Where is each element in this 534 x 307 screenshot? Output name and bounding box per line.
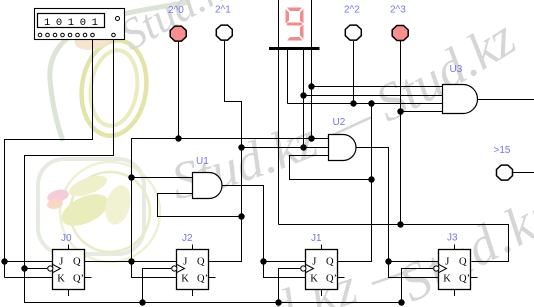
wire U1 output to J1 — [222, 186, 306, 262]
svg-text:>15: >15 — [494, 145, 511, 156]
node U1 out split — [260, 258, 266, 264]
logo stamp1 ring — [76, 36, 153, 140]
gate U3 AND — [443, 85, 478, 114]
wire W1 branch to J0 K input — [5, 277, 53, 279]
wire Q2 from J1.Q — [338, 104, 372, 262]
logo stamp2 rounded square — [38, 159, 144, 254]
word generator pin circles — [38, 33, 115, 37]
svg-text:Q’: Q’ — [197, 273, 208, 284]
svg-text:J: J — [59, 256, 63, 267]
wire Q1 to U2 input2 — [242, 147, 329, 149]
node clock bus J1 — [275, 299, 281, 305]
node lamp 2^2 tap — [350, 100, 356, 106]
wire U3 input4 — [401, 111, 443, 113]
wire Q3 riser to lamp 2^3 — [400, 41, 402, 225]
lamp 2^3 — [392, 26, 408, 41]
lamp 2^0 — [170, 26, 186, 41]
svg-text:K: K — [310, 273, 318, 284]
flip-flop J0 — [48, 245, 92, 297]
node Q0 7seg pin4 junction — [308, 135, 314, 141]
svg-text:2^2: 2^2 — [344, 5, 360, 16]
logo stamp1 corner path — [50, 2, 190, 141]
node U3 input2 tap — [300, 92, 306, 98]
wire Q0 branch to J2.K — [132, 262, 177, 278]
wire U2 output to J3 — [356, 148, 439, 262]
svg-text:Q’: Q’ — [459, 273, 470, 284]
wire Q1 from J2.Q — [209, 41, 242, 262]
wire 7seg pin4 vertical — [311, 0, 313, 139]
svg-text:Q: Q — [73, 256, 81, 267]
node clock bus J2 — [139, 299, 145, 305]
wire Q2 horizontal to U3 input3 — [288, 103, 443, 105]
lamp 2^2 — [345, 25, 361, 40]
wire U3 output — [478, 99, 534, 101]
word generator indicator circle — [116, 17, 120, 21]
svg-text:K: K — [57, 273, 65, 284]
svg-text:K: K — [443, 273, 451, 284]
wire 7seg pin2 vertical — [287, 50, 289, 104]
wire U3 input2 — [304, 95, 443, 97]
wire Q3 from J3.Q — [279, 225, 509, 262]
node U3 input4 tap — [397, 108, 403, 114]
svg-text:Q: Q — [459, 256, 467, 267]
flip-flop J3 — [434, 245, 478, 297]
svg-text:J: J — [312, 256, 316, 267]
node Q0 at riser base — [128, 258, 134, 264]
wire U3 input1 — [312, 86, 443, 88]
word generator display window — [38, 14, 105, 28]
node Q0 to U1 — [128, 174, 134, 180]
svg-text:J1: J1 — [311, 233, 322, 244]
logo stamp2 salmon — [46, 198, 63, 211]
logo stamp2 petal pink — [46, 187, 70, 204]
svg-text:U3: U3 — [450, 64, 463, 75]
wire U1 output branch to J1.K — [264, 262, 306, 278]
logo stamp1 flower orange — [72, 22, 116, 54]
flip-flop J1 — [301, 245, 345, 297]
wire 7seg pin3 vertical — [303, 50, 305, 148]
node Q1 7seg pin3 junction — [300, 144, 306, 150]
svg-text:Q: Q — [326, 256, 334, 267]
svg-text:10101: 10101 — [44, 17, 104, 29]
svg-text:2^1: 2^1 — [215, 5, 231, 16]
wire U2 input3 loop — [290, 156, 372, 180]
svg-text:2^3: 2^3 — [390, 5, 406, 16]
wire Q0 from J0.Q to J2.J — [85, 261, 177, 263]
logo stamp2 bird swirl — [101, 183, 135, 228]
7seg display body sides — [278, 0, 280, 47]
logo stamp2 thin rings — [70, 172, 150, 252]
svg-text:J: J — [183, 256, 187, 267]
node Q0 lamp 2^0 tap — [175, 135, 181, 141]
lamp >15 — [497, 165, 513, 180]
svg-text:U2: U2 — [333, 117, 346, 128]
wire W1 branch to J0 J input — [5, 261, 53, 263]
lamp 2^1 — [216, 25, 232, 40]
svg-text:2^0: 2^0 — [168, 5, 184, 16]
svg-text:J: J — [445, 256, 449, 267]
wire W2 branch to J0 clock bubble — [25, 268, 48, 270]
svg-text:J0: J0 — [61, 233, 72, 244]
svg-text:U1: U1 — [196, 156, 209, 167]
gate U2 AND — [329, 135, 357, 161]
wire Q0 riser — [132, 139, 329, 262]
gate U1 AND — [193, 173, 223, 199]
node clock bus J3 — [398, 299, 404, 305]
svg-text:J2: J2 — [182, 233, 193, 244]
wire W1 device pin8 to J0 J/K — [5, 40, 93, 278]
wire 7seg pin1 vertical — [278, 0, 280, 225]
node U2 out split — [385, 258, 391, 264]
svg-text:Q: Q — [197, 256, 205, 267]
node Q2 to U2 input3 — [368, 176, 374, 182]
node Q1 to U2 — [238, 144, 244, 150]
logo stamp2 bird body — [57, 188, 113, 233]
node W2 clock split — [21, 265, 27, 271]
svg-text:K: K — [181, 273, 189, 284]
7seg display base bar — [269, 47, 320, 50]
wire U1 input2 loop — [158, 194, 242, 217]
wire clock riser J3 — [402, 269, 434, 303]
node Q1 to U1 input2 — [238, 213, 244, 219]
7seg digit 9 — [286, 8, 304, 41]
node Q3 riser tap — [397, 221, 403, 227]
wire >15 lamp lead — [512, 172, 534, 174]
wire clock riser J1 — [279, 269, 301, 303]
word generator device outer box — [35, 9, 125, 40]
svg-text:Q’: Q’ — [73, 273, 84, 284]
wire lamp 2^0 stub — [178, 41, 180, 139]
node W1 J/K split — [1, 258, 7, 264]
flip-flop J2 — [172, 245, 216, 297]
node Q2 riser top — [368, 100, 374, 106]
wire lamp 2^2 stub — [353, 41, 355, 104]
node U3 input1 tap — [308, 83, 314, 89]
wire W2 device pin9 clock feed — [25, 40, 402, 303]
wire U2 output branch to J3.K — [389, 262, 439, 278]
logo stamp2 bird wing — [66, 172, 109, 201]
wire clock riser J2 — [143, 269, 172, 303]
svg-text:Q’: Q’ — [326, 273, 337, 284]
wire Q0 branch to U1 input 1 — [132, 177, 193, 179]
svg-text:J3: J3 — [447, 233, 458, 244]
